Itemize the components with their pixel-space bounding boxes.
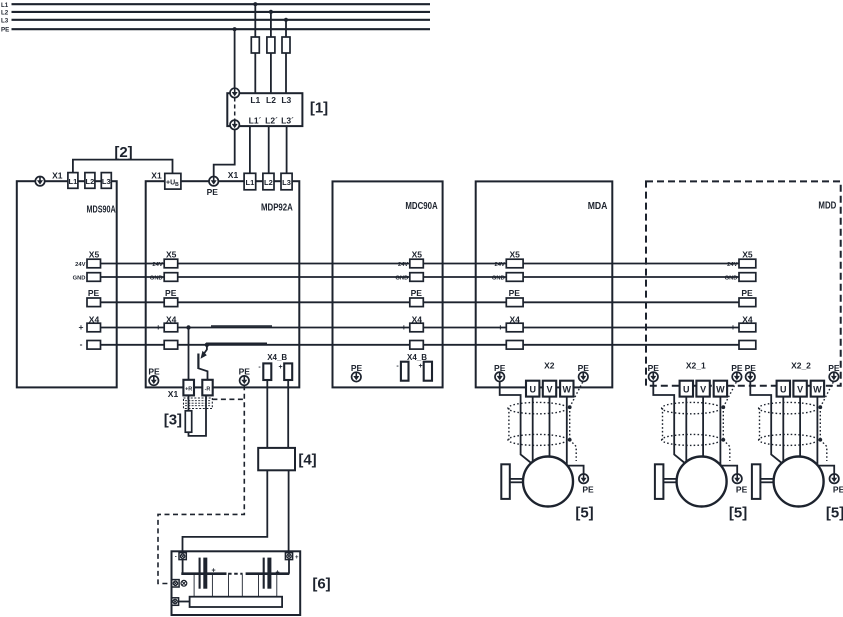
svg-text:X4_B: X4_B: [407, 353, 427, 362]
svg-text:X1: X1: [151, 170, 162, 180]
svg-text:MDS90A: MDS90A: [87, 205, 116, 216]
svg-text:X2_1: X2_1: [686, 361, 706, 371]
svg-text:-: -: [396, 363, 399, 370]
svg-text:MDP92A: MDP92A: [261, 203, 293, 214]
svg-text:-R: -R: [205, 386, 211, 392]
svg-text:PE: PE: [239, 367, 251, 377]
svg-text:+R: +R: [185, 386, 192, 392]
svg-text:L2´: L2´: [265, 116, 278, 126]
svg-text:-: -: [175, 555, 177, 561]
svg-text:[2]: [2]: [114, 144, 132, 161]
svg-text:+: +: [418, 363, 422, 370]
svg-text:[4]: [4]: [298, 452, 316, 469]
svg-text:+: +: [295, 555, 299, 561]
svg-text:PE: PE: [207, 187, 219, 197]
svg-text:L2: L2: [266, 95, 276, 105]
svg-text:X2_2: X2_2: [791, 361, 811, 371]
svg-text:X4_B: X4_B: [267, 353, 287, 362]
svg-text:X1: X1: [168, 389, 179, 399]
svg-text:L2: L2: [1, 10, 9, 17]
svg-text:L1´: L1´: [249, 116, 262, 126]
svg-text:[1]: [1]: [310, 100, 328, 117]
svg-text:X2: X2: [544, 360, 555, 370]
svg-text:+: +: [275, 570, 279, 577]
svg-text:-: -: [258, 364, 261, 371]
svg-text:MDA: MDA: [588, 201, 608, 212]
svg-text:L1: L1: [69, 177, 78, 186]
svg-text:MDC90A: MDC90A: [405, 201, 437, 212]
svg-text:L1: L1: [250, 95, 260, 105]
svg-text:MDD: MDD: [818, 201, 836, 212]
svg-text:PE: PE: [1, 27, 9, 34]
svg-text:L3: L3: [1, 17, 9, 24]
svg-text:L3: L3: [282, 178, 291, 187]
svg-text:L3´: L3´: [281, 116, 294, 126]
svg-text:L1: L1: [1, 2, 9, 9]
svg-text:L2: L2: [86, 177, 95, 186]
svg-text:+: +: [211, 568, 215, 575]
svg-text:X1: X1: [228, 170, 239, 180]
svg-text:L3: L3: [281, 95, 291, 105]
svg-text:L1: L1: [246, 178, 255, 187]
svg-text:[3]: [3]: [164, 412, 182, 429]
svg-text:X1: X1: [52, 170, 63, 180]
svg-text:L3: L3: [102, 177, 111, 186]
svg-text:+: +: [278, 364, 282, 371]
svg-text:[6]: [6]: [312, 576, 330, 593]
svg-text:L2: L2: [264, 178, 273, 187]
svg-text:PE: PE: [148, 367, 160, 377]
